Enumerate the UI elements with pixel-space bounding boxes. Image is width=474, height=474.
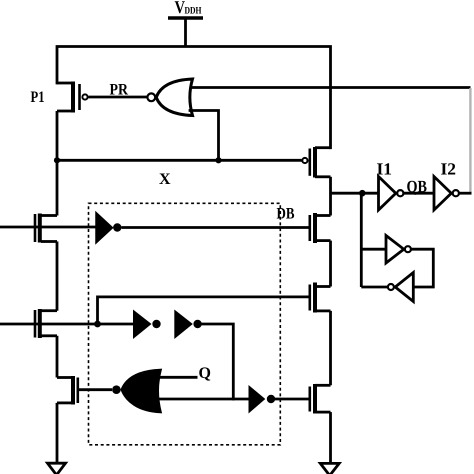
node X wire [57, 159, 302, 162]
node X junction dot left [54, 157, 60, 163]
wire U1 bottom input to node X [190, 111, 219, 161]
wire input D [0, 226, 96, 229]
inverter A1 bubble [113, 223, 121, 231]
transistor P1 [57, 82, 88, 161]
svg-text:P1: P1 [31, 89, 45, 106]
wire right rail R1 to node [329, 177, 332, 216]
inverter A2 [133, 310, 152, 340]
wire right rail R3-R4 [329, 311, 332, 385]
inverter A3 bubble [193, 320, 201, 328]
svg-text:I1: I1 [377, 160, 393, 179]
transistor R4 [310, 384, 331, 414]
wire Q input [152, 376, 198, 379]
inverter A2 bubble [152, 320, 160, 328]
inverter A4 bubble [267, 395, 275, 403]
nor gate U2 [122, 370, 161, 412]
wire feedback right edge [469, 88, 471, 192]
transistor M3 [57, 376, 112, 405]
power VDDH symbol [168, 18, 203, 47]
wire output node QBi [331, 192, 379, 195]
wire left rail M2-M3 [56, 336, 59, 378]
inverter A1 [96, 213, 113, 244]
transistor R1 pmos [302, 147, 330, 178]
ground left [48, 463, 66, 474]
transistor M2 [35, 309, 57, 338]
VDDH label [175, 0, 202, 17]
inverter I2 [434, 177, 451, 211]
wire DB [122, 226, 309, 229]
inverter K2 bubble [388, 284, 394, 290]
inverter K2 [395, 273, 413, 302]
wire latch bottom stub [361, 286, 387, 289]
wire input DB external [0, 323, 134, 326]
inverter I1 bubble [397, 190, 403, 196]
wire top rail [57, 47, 331, 148]
wire right rail R2-R3 [329, 241, 332, 287]
inverter A3 [174, 310, 193, 340]
wire latch left vertical [360, 193, 363, 287]
svg-text:V: V [175, 0, 186, 17]
nor gate U2 bubble [112, 385, 121, 394]
node X junction dot mid [215, 157, 221, 163]
nor gate U1 [156, 79, 192, 116]
transistor R2 [310, 213, 331, 243]
svg-text:DDH: DDH [185, 6, 202, 17]
inverter K1 [386, 236, 404, 264]
wire left rail P1 to M1 handled above; rail M1-M2 [56, 242, 59, 311]
wire U1 top input feedback [190, 86, 471, 89]
svg-text:QB: QB [407, 177, 428, 196]
wire PR [89, 96, 147, 99]
wire right rail R4-ground [329, 412, 332, 463]
svg-text:X: X [159, 171, 171, 188]
wire to R4 gate [275, 398, 309, 401]
svg-text:Q: Q [199, 365, 211, 382]
svg-text:I2: I2 [441, 160, 457, 179]
svg-text:PR: PR [110, 82, 129, 99]
inverter K1 bubble [405, 246, 411, 252]
nor gate U1 output bubble [147, 93, 155, 101]
transistor M1 [35, 160, 57, 243]
wire latch right loop [412, 249, 434, 287]
wire QB [404, 192, 434, 195]
inverter I1 [379, 177, 396, 211]
wire A3 out down to y399 [202, 324, 234, 399]
dashed box [89, 203, 281, 444]
wire latch top stub [361, 248, 386, 251]
junction dot node S [94, 321, 101, 328]
ground right [320, 463, 339, 474]
wire left rail M3-ground [56, 403, 59, 463]
wire S up to R3 gate [98, 297, 309, 324]
inverter A4 [249, 385, 266, 414]
wire I2 output to edge [460, 192, 472, 195]
transistor R3 [310, 283, 331, 313]
inverter I2 bubble [453, 190, 459, 196]
svg-text:DB: DB [277, 206, 295, 223]
junction dot QBi [359, 190, 366, 197]
wire U2 bottom input [154, 398, 249, 401]
